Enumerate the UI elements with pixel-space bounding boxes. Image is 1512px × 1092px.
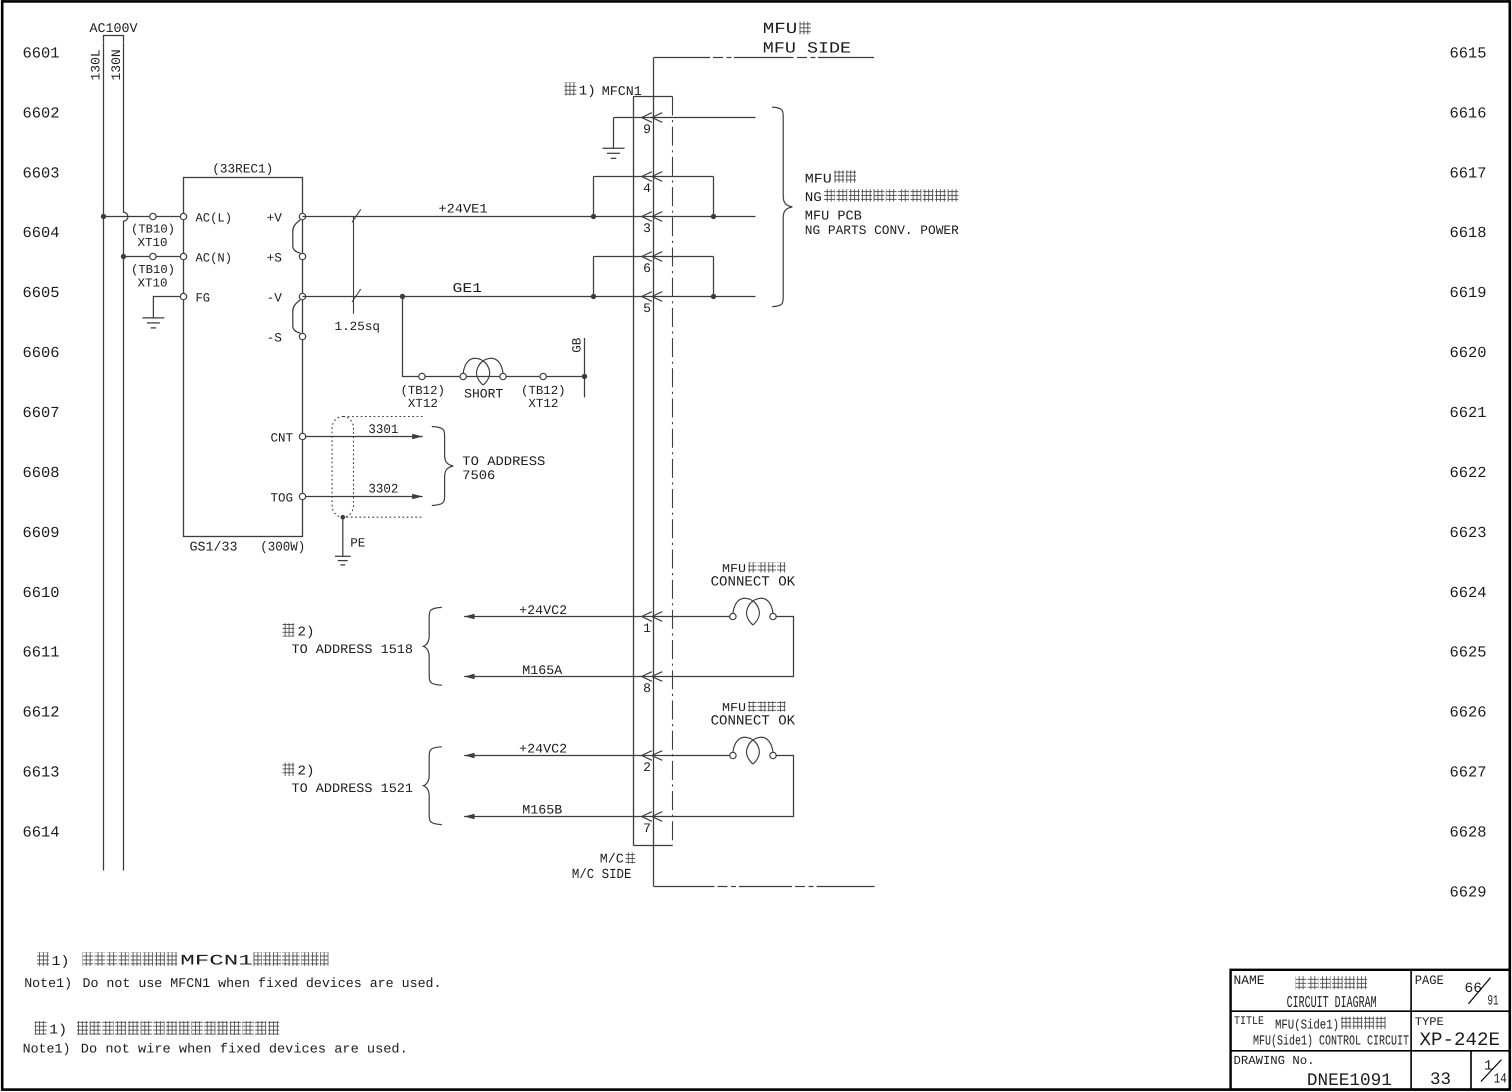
svg-text:DNEE1091: DNEE1091: [1307, 1071, 1392, 1091]
label 注2) TO ADDRESS 1521: [283, 763, 295, 776]
svg-text:6628: 6628: [1450, 823, 1487, 841]
svg-text:M/C SIDE: M/C SIDE: [572, 868, 632, 883]
svg-text:6602: 6602: [23, 104, 60, 122]
wire GB stub: [584, 338, 586, 398]
svg-text:2: 2: [643, 760, 651, 775]
wire riser to M/C boundary: [653, 846, 655, 887]
note 1 japanese: [37, 952, 49, 966]
svg-text:Note1): Note1): [23, 1042, 71, 1057]
right margin row numbers 6615-6629: [1450, 44, 1487, 901]
svg-text:6623: 6623: [1450, 524, 1487, 542]
svg-text:MFU(Side1): MFU(Side1): [1275, 1019, 1339, 1034]
svg-text:XT12: XT12: [528, 397, 558, 411]
svg-text:6610: 6610: [23, 584, 60, 602]
terminal (TB10) XT10 on AC(N): [150, 253, 156, 259]
svg-text:Note1): Note1): [24, 976, 72, 991]
svg-text:TO ADDRESS 1518: TO ADDRESS 1518: [292, 642, 414, 657]
svg-text:91: 91: [1488, 993, 1499, 1009]
svg-text:NAME: NAME: [1234, 973, 1265, 988]
node pin5 junctions: [591, 294, 596, 299]
svg-text:6612: 6612: [23, 704, 60, 722]
svg-text:MFU: MFU: [763, 20, 798, 38]
wire AC(N): [124, 256, 184, 258]
wire CNT 3301 with arrow: [303, 436, 423, 438]
svg-text:FG: FG: [196, 291, 211, 305]
svg-text:NG PARTS CONV. POWER: NG PARTS CONV. POWER: [805, 223, 959, 238]
pin FG: [180, 293, 186, 299]
svg-text:3: 3: [643, 221, 651, 236]
node GE1 branch: [400, 294, 405, 299]
svg-text:(TB12): (TB12): [521, 384, 566, 398]
svg-text:6619: 6619: [1450, 284, 1487, 302]
pin 1: [642, 612, 652, 622]
svg-text:+V: +V: [267, 210, 283, 225]
boundary line MFU side: [654, 57, 711, 59]
svg-text:TOG: TOG: [270, 491, 293, 505]
svg-text:2): 2): [298, 765, 315, 780]
wire GE1 (-V to MFCN1 pin5): [303, 296, 756, 298]
svg-text:M/C: M/C: [600, 852, 624, 867]
svg-text:GS1/33: GS1/33: [190, 539, 238, 554]
svg-text:6608: 6608: [23, 464, 60, 482]
svg-text:6607: 6607: [23, 404, 60, 422]
pin +S: [299, 253, 305, 259]
svg-text:MFU(Side1) CONTROL CIRCUIT: MFU(Side1) CONTROL CIRCUIT: [1253, 1034, 1409, 1049]
svg-text:3301: 3301: [368, 422, 398, 437]
svg-text:M165A: M165A: [522, 663, 562, 678]
wire pin6 jumper to pin5: [593, 257, 595, 297]
terminal (TB12) XT12 right: [540, 373, 546, 379]
svg-text:GB: GB: [571, 337, 585, 353]
svg-text:(TB12): (TB12): [400, 384, 445, 398]
wire boundary riser to MFCN1: [653, 58, 655, 97]
svg-text:TO ADDRESS 1521: TO ADDRESS 1521: [292, 781, 414, 796]
svg-text:1.25sq: 1.25sq: [335, 320, 381, 334]
svg-text:1: 1: [1484, 1059, 1492, 1075]
pin +V: [299, 213, 305, 219]
brace MFU PCB power: [772, 107, 792, 307]
svg-text:6605: 6605: [23, 284, 60, 302]
wire TOG 3302 with arrow: [303, 496, 423, 498]
boundary line M/C side: [654, 886, 715, 888]
svg-text:TITLE: TITLE: [1234, 1015, 1264, 1028]
connector boundary chain line: [672, 97, 674, 846]
pin 7: [642, 812, 652, 822]
svg-text:6624: 6624: [1450, 584, 1487, 602]
svg-text:33: 33: [1430, 1070, 1451, 1090]
left margin row numbers 6601-6614: [23, 44, 60, 841]
svg-text:9: 9: [643, 122, 651, 137]
svg-text:66: 66: [1465, 981, 1483, 997]
svg-text:PE: PE: [350, 536, 365, 550]
svg-text:+24VC2: +24VC2: [519, 603, 567, 618]
svg-text:AC(L): AC(L): [196, 211, 233, 225]
wire 130L vertical: [103, 43, 105, 871]
svg-text:Do not wire when fixed devices: Do not wire when fixed devices are used.: [81, 1042, 408, 1057]
svg-text:DRAWING No.: DRAWING No.: [1234, 1054, 1315, 1068]
wire PE to ground: [342, 517, 344, 556]
sense jumper +V/+S: [293, 220, 301, 253]
svg-text:6606: 6606: [23, 344, 60, 362]
wire gauge marks 1.25sq: [353, 217, 355, 314]
svg-text:CNT: CNT: [270, 431, 293, 445]
shield (dotted capsule) around 3301/3302: [332, 417, 353, 518]
pin 6: [642, 252, 652, 262]
pin 5: [642, 292, 652, 302]
pin 4: [642, 172, 652, 182]
svg-text:6603: 6603: [23, 164, 60, 182]
svg-text:1): 1): [52, 955, 70, 970]
svg-text:6620: 6620: [1450, 344, 1487, 362]
bracket under AC100V: [104, 36, 124, 43]
ground at MFCN1 pin 9: [603, 147, 625, 149]
wire GE1 down to XT12: [403, 297, 585, 377]
svg-text:XT12: XT12: [408, 397, 438, 411]
brace TO ADDRESS 1521: [423, 747, 442, 825]
svg-text:6625: 6625: [1450, 644, 1487, 662]
wire +24VC2 (pin1): [464, 616, 730, 618]
svg-text:Do not use MFCN1 when fixed de: Do not use MFCN1 when fixed devices are …: [83, 976, 442, 991]
pin AC(N): [180, 253, 186, 259]
svg-text:+24VE1: +24VE1: [439, 201, 488, 216]
svg-text:TYPE: TYPE: [1415, 1016, 1444, 1029]
pin CNT: [299, 433, 305, 439]
pin 3: [642, 212, 652, 222]
title block frame: [1231, 970, 1510, 1090]
svg-text:14: 14: [1494, 1072, 1507, 1088]
label 注1) MFCN1: [565, 83, 577, 96]
svg-text:MFCN1: MFCN1: [180, 953, 253, 969]
svg-text:6621: 6621: [1450, 404, 1487, 422]
svg-text:130N: 130N: [109, 49, 124, 80]
svg-text:-S: -S: [267, 330, 282, 345]
svg-text:-V: -V: [267, 290, 283, 305]
pin 8: [642, 672, 652, 682]
ground at FG: [142, 317, 164, 319]
svg-text:PAGE: PAGE: [1415, 973, 1444, 988]
wire pin4 row: [594, 176, 714, 178]
node GB: [582, 374, 587, 379]
pin 9: [642, 113, 652, 123]
wire +24VC2 (pin2): [464, 755, 730, 757]
svg-text:6611: 6611: [23, 644, 60, 662]
svg-text:AC(N): AC(N): [196, 251, 233, 265]
svg-text:SHORT: SHORT: [464, 387, 503, 402]
brace TO ADDRESS 1518: [423, 607, 442, 685]
svg-text:6601: 6601: [23, 44, 60, 62]
svg-text:4: 4: [643, 181, 651, 196]
svg-text:7: 7: [643, 821, 651, 836]
svg-text:1): 1): [579, 85, 596, 100]
svg-text:XT10: XT10: [138, 277, 168, 291]
node PE on shield: [341, 515, 346, 520]
svg-text:6609: 6609: [23, 524, 60, 542]
pin 2: [642, 751, 652, 761]
svg-text:CONNECT OK: CONNECT OK: [711, 714, 796, 730]
svg-text:6615: 6615: [1450, 44, 1487, 62]
svg-text:6614: 6614: [23, 823, 60, 841]
svg-text:CONNECT OK: CONNECT OK: [711, 575, 796, 591]
terminal (TB10) XT10 on AC(L): [150, 213, 156, 219]
ground PE: [335, 555, 351, 557]
note 2 japanese: [35, 1021, 47, 1035]
svg-text:(300W): (300W): [260, 539, 305, 554]
power supply box (33REC1): [184, 178, 303, 537]
svg-text:2): 2): [298, 625, 315, 640]
svg-text:6618: 6618: [1450, 224, 1487, 242]
svg-text:TO ADDRESS: TO ADDRESS: [462, 454, 545, 469]
svg-text:6617: 6617: [1450, 164, 1487, 182]
terminal (TB12) XT12 left: [419, 373, 425, 379]
svg-text:MFCN1: MFCN1: [602, 84, 642, 99]
wire FG to ground: [153, 297, 183, 318]
svg-text:(TB10): (TB10): [131, 223, 175, 237]
pin AC(L): [180, 213, 186, 219]
svg-text:6616: 6616: [1450, 104, 1487, 122]
svg-text:1): 1): [49, 1024, 67, 1039]
svg-text:6604: 6604: [23, 224, 60, 242]
svg-text:130L: 130L: [89, 49, 104, 80]
svg-text:7506: 7506: [462, 468, 495, 483]
svg-text:M165B: M165B: [522, 803, 562, 818]
coil MFU CONNECT OK (1): [733, 598, 759, 625]
wire coil2 return loop: [464, 756, 793, 817]
svg-text:MFU SIDE: MFU SIDE: [763, 40, 851, 58]
svg-text:(33REC1): (33REC1): [212, 161, 273, 176]
svg-text:6629: 6629: [1450, 883, 1487, 901]
wire +24VE1 (+V to MFCN1 pin3): [303, 216, 756, 218]
svg-text:8: 8: [643, 681, 651, 696]
svg-text:+24VC2: +24VC2: [519, 742, 567, 757]
pin -V: [299, 293, 305, 299]
wire pin4 jumper to pin3 (left): [593, 177, 595, 217]
wire pin9 row (to earth): [614, 117, 756, 119]
label 注2) TO ADDRESS 1518: [283, 623, 295, 636]
pin -S: [299, 333, 305, 339]
jumper SHORT: [463, 358, 489, 385]
svg-text:6: 6: [643, 261, 651, 276]
svg-text:6622: 6622: [1450, 464, 1487, 482]
svg-text:+S: +S: [267, 250, 282, 265]
brace TO ADDRESS 7506: [432, 427, 453, 506]
svg-text:CIRCUIT DIAGRAM: CIRCUIT DIAGRAM: [1287, 993, 1377, 1012]
wire AC(L): [104, 216, 184, 218]
svg-text:(TB10): (TB10): [131, 263, 175, 277]
svg-text:6626: 6626: [1450, 704, 1487, 722]
wire 130N vertical with hop over AC(L) wire: [124, 43, 128, 871]
svg-text:MFU: MFU: [805, 171, 832, 186]
svg-text:6613: 6613: [23, 764, 60, 782]
pin TOG: [299, 493, 305, 499]
svg-text:5: 5: [643, 301, 651, 316]
wire pin6 row: [594, 256, 714, 258]
svg-text:3302: 3302: [368, 482, 398, 497]
coil MFU CONNECT OK (2): [733, 737, 759, 764]
connector MFCN1 body: [633, 97, 635, 846]
svg-text:NG: NG: [805, 190, 822, 205]
svg-text:6627: 6627: [1450, 764, 1487, 782]
wire coil1 return loop: [464, 617, 793, 677]
svg-text:GE1: GE1: [453, 282, 483, 297]
svg-text:XP-242E: XP-242E: [1420, 1029, 1501, 1051]
node pin3 junctions: [591, 214, 596, 219]
sense jumper -V/-S: [293, 300, 301, 333]
svg-text:AC100V: AC100V: [90, 21, 138, 36]
svg-text:XT10: XT10: [138, 236, 168, 250]
svg-text:1: 1: [643, 621, 651, 636]
